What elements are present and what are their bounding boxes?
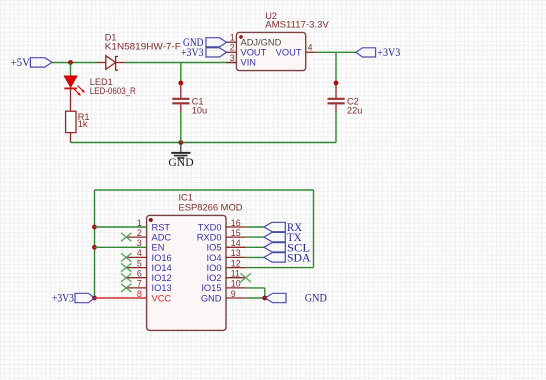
wire IO15 right <box>246 287 265 289</box>
pin 16 TXD0 <box>198 218 246 233</box>
svg-text:10u: 10u <box>192 106 207 116</box>
wire loop right vertical <box>313 190 315 268</box>
junction at C1 top <box>178 81 183 86</box>
pin 4 VOUT <box>306 51 316 53</box>
svg-text:EN: EN <box>152 243 165 253</box>
ground GND <box>168 143 194 170</box>
svg-text:K1N5819HW-7-F: K1N5819HW-7-F <box>105 42 181 52</box>
wire to C2 <box>335 52 337 83</box>
wire IO0 to loop <box>246 267 314 269</box>
svg-text:ADJ/GND: ADJ/GND <box>241 37 282 47</box>
wire to RST <box>95 226 147 228</box>
svg-text:1k: 1k <box>78 119 88 129</box>
junction VCC <box>92 296 97 301</box>
pin 1 ADJ/GND <box>227 41 237 43</box>
svg-text:15: 15 <box>231 228 241 238</box>
wire U2 pin4 to +3V3 flag <box>316 51 356 53</box>
capacitor C1 <box>172 83 207 116</box>
wire C2 to rail <box>335 112 337 143</box>
svg-text:12: 12 <box>231 258 241 268</box>
pin 3 VIN <box>227 62 237 64</box>
svg-text:IO4: IO4 <box>207 253 222 263</box>
svg-text:+3V3: +3V3 <box>52 293 74 305</box>
net flag GND bottom <box>265 293 327 305</box>
svg-text:7: 7 <box>137 279 142 289</box>
junction EN <box>92 245 97 250</box>
svg-text:RXD0: RXD0 <box>197 233 222 243</box>
net flag SCL <box>264 240 310 254</box>
svg-text:4: 4 <box>308 43 313 53</box>
wire +5V flag to diode anode <box>52 62 97 64</box>
wire to VCC <box>95 297 147 299</box>
svg-text:3: 3 <box>230 53 235 63</box>
svg-text:IC1: IC1 <box>179 193 193 203</box>
pin 2 VOUT <box>227 51 237 53</box>
svg-text:RST: RST <box>152 222 171 232</box>
pin 6 IO12 <box>127 269 172 284</box>
wire loop left vertical <box>94 190 96 298</box>
svg-text:IO13: IO13 <box>152 283 172 293</box>
svg-text:IO15: IO15 <box>201 283 221 293</box>
pin 5 IO14 <box>127 258 172 273</box>
no-connect X on IO12 <box>121 274 131 282</box>
wire GND pin to flag <box>246 297 265 299</box>
svg-text:GND: GND <box>168 155 194 169</box>
no-connect X on IO14 <box>121 263 131 271</box>
wire LED cathode to R1 <box>70 88 72 111</box>
svg-text:16: 16 <box>231 218 241 228</box>
svg-text:TXD0: TXD0 <box>198 222 222 232</box>
wire IO15 down to GND net <box>264 288 266 298</box>
pin 15 RXD0 <box>197 228 246 243</box>
wire RXD0 to TX flag <box>246 236 264 238</box>
pin 14 IO5 <box>207 238 246 253</box>
pin 10 IO15 <box>201 279 245 294</box>
junction GND net <box>262 296 267 301</box>
no-connect X on ADC <box>121 233 131 241</box>
no-connect X on IO13 <box>121 284 131 292</box>
wire diode cathode to U2 VIN <box>125 62 236 64</box>
net flag +3V3 at VCC <box>52 293 95 305</box>
no-connect X on IO2 <box>241 273 251 282</box>
svg-text:14: 14 <box>231 238 241 248</box>
svg-text:9: 9 <box>231 289 236 299</box>
LED LED1 <box>64 76 136 96</box>
svg-text:2: 2 <box>230 43 235 53</box>
svg-text:IO2: IO2 <box>207 273 222 283</box>
pin 12 IO0 <box>207 258 246 273</box>
svg-text:10: 10 <box>231 279 241 289</box>
net flag +3V3 output <box>356 47 401 59</box>
net flag +5V <box>11 57 53 69</box>
wire to EN <box>95 246 147 248</box>
pin 9 GND <box>201 289 246 304</box>
svg-text:LED-0603_R: LED-0603_R <box>90 86 136 96</box>
svg-text:VCC: VCC <box>152 293 172 303</box>
svg-text:22u: 22u <box>347 106 362 116</box>
junction RST <box>92 225 97 230</box>
net flag GND at U2 pin1 <box>183 37 227 49</box>
no-connect X on IO16 <box>121 253 131 261</box>
svg-text:VOUT: VOUT <box>241 48 267 58</box>
wire IO5 to SCL flag <box>246 246 264 248</box>
pin 1 RST <box>137 218 171 233</box>
svg-text:ADC: ADC <box>152 233 172 243</box>
wire bottom ground rail <box>71 142 337 144</box>
pin 13 IO4 <box>207 248 246 263</box>
svg-text:11: 11 <box>231 269 240 279</box>
wire C1 to rail <box>180 112 182 143</box>
svg-text:AMS1117-3.3V: AMS1117-3.3V <box>265 19 329 29</box>
svg-text:2: 2 <box>137 228 142 238</box>
svg-text:IO0: IO0 <box>207 263 222 273</box>
wire TXD0 to RX flag <box>246 226 264 228</box>
net flag SDA <box>264 250 311 264</box>
net flag RX <box>264 220 302 234</box>
pin 2 ADC <box>127 228 171 243</box>
wire rail to C1 <box>180 63 182 84</box>
resistor R1 <box>66 111 90 132</box>
capacitor C2 <box>328 83 363 116</box>
wire R1 to bottom rail <box>70 133 72 143</box>
svg-text:13: 13 <box>231 248 241 258</box>
junction at LED branch <box>68 60 73 65</box>
wire junction to LED anode <box>70 63 72 77</box>
svg-text:VOUT: VOUT <box>276 48 302 58</box>
pin 3 EN <box>137 238 165 253</box>
svg-text:SDA: SDA <box>287 250 311 264</box>
op-amp U2 regulator AMS1117 <box>227 11 330 71</box>
wire IO4 to SDA flag <box>246 256 264 258</box>
svg-text:ESP8266 MOD: ESP8266 MOD <box>179 202 243 212</box>
pin 4 IO16 <box>127 248 172 263</box>
svg-text:+3V3: +3V3 <box>181 47 204 59</box>
svg-text:5: 5 <box>137 258 142 268</box>
net flag +3V3 at U2 pin2 <box>181 47 227 59</box>
wire loop top <box>95 189 314 191</box>
pin 7 IO13 <box>127 279 172 294</box>
svg-text:IO12: IO12 <box>152 273 172 283</box>
pin 11 IO2 <box>207 269 246 284</box>
svg-text:VIN: VIN <box>241 58 257 68</box>
svg-text:IO5: IO5 <box>207 243 222 253</box>
svg-text:+3V3: +3V3 <box>377 47 400 59</box>
diode D1 <box>97 33 181 71</box>
svg-text:IO14: IO14 <box>152 263 172 273</box>
svg-text:GND: GND <box>201 293 222 303</box>
svg-text:+5V: +5V <box>11 57 31 69</box>
junction at ground rail <box>178 140 183 145</box>
pin 8 VCC <box>137 289 172 304</box>
svg-text:4: 4 <box>137 248 142 258</box>
svg-text:6: 6 <box>137 269 142 279</box>
junction at C2 top <box>334 81 339 86</box>
net flag TX <box>264 230 302 244</box>
svg-text:1: 1 <box>230 33 235 43</box>
svg-text:GND: GND <box>305 293 327 305</box>
svg-text:IO16: IO16 <box>152 253 172 263</box>
IC U1 ESP8266 module IC1 <box>147 193 243 331</box>
